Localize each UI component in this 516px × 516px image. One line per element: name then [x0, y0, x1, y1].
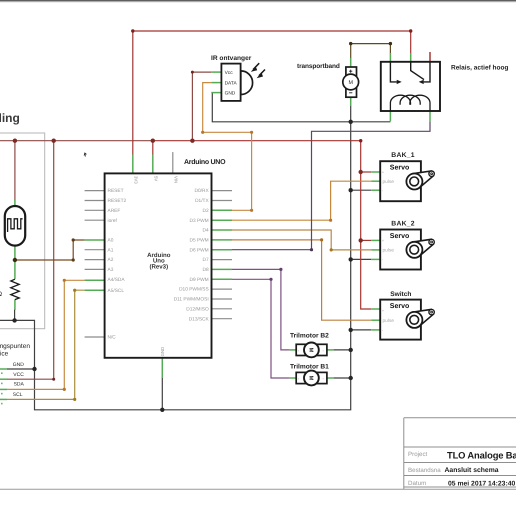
pin stubs I2C header left — [0, 369, 7, 399]
Arduino top pin labels rotated — [133, 176, 178, 184]
group frame (light) — [0, 133, 45, 329]
wire GND: relay coil left pin to bus — [351, 121, 391, 123]
svg-text:BAK_1: BAK_1 — [391, 152, 415, 159]
svg-text:D1/TX: D1/TX — [195, 198, 209, 204]
pin stubs LDR and resistor — [14, 200, 16, 311]
wire GND: main vertical bus from motor to bottom rail — [0, 106, 351, 410]
pin stubs servo Switch — [371, 309, 380, 330]
svg-text:M: M — [307, 348, 313, 353]
svg-text:AREF: AREF — [108, 208, 121, 214]
wire GND: header GND pin — [7, 368, 35, 370]
svg-text:D9 PWM: D9 PWM — [189, 277, 208, 283]
svg-text:SCL: SCL — [13, 392, 23, 398]
wire VCC dark red: left rail — [0, 140, 153, 142]
TITLE-BLOCK — [404, 418, 516, 490]
servo BAK_2 — [380, 220, 434, 269]
svg-text:D7: D7 — [203, 257, 209, 263]
svg-text:D3 PWM: D3 PWM — [189, 218, 208, 224]
svg-text:device: device — [0, 350, 9, 357]
svg-text:RESET2: RESET2 — [108, 198, 127, 204]
junction dots red — [13, 139, 363, 243]
svg-text:Trilmotor B1: Trilmotor B1 — [290, 364, 329, 371]
svg-text:D8: D8 — [203, 267, 209, 273]
svg-text:A2: A2 — [108, 257, 114, 263]
wire red: 5V pin link — [152, 141, 154, 155]
I2C header tiny pin marks — [1, 372, 3, 404]
resistor R2 — [0, 279, 19, 299]
I2C header name label — [0, 343, 30, 357]
servo Switch — [380, 291, 434, 340]
pin stubs Arduino left — [85, 191, 105, 337]
Arduino bottom GND label rotated — [160, 347, 165, 357]
relay K1 — [381, 62, 509, 111]
svg-text:D10 PWM/SS: D10 PWM/SS — [179, 287, 209, 293]
svg-text:D4: D4 — [203, 228, 209, 234]
svg-text:D11 PWM/MOSI: D11 PWM/MOSI — [174, 297, 209, 303]
Arduino right pin labels — [174, 188, 210, 322]
svg-text:VIN: VIN — [173, 176, 178, 183]
svg-text:Servo: Servo — [390, 233, 409, 240]
pin stubs motor transportband — [350, 58, 352, 106]
pin stubs relay — [390, 52, 430, 122]
svg-text:(Rev3): (Rev3) — [149, 264, 168, 271]
wire orange: D3 to BAK_1 pulse — [232, 181, 371, 220]
svg-text:N/C: N/C — [108, 335, 117, 341]
svg-text:GND: GND — [225, 91, 236, 97]
wire red: BAK_1 servo plus — [361, 171, 372, 173]
wire purple: D9 to Trilmotor B1 — [232, 279, 289, 378]
svg-text:Relais, actief hoog: Relais, actief hoog — [451, 65, 508, 72]
wire GND: Switch servo minus — [351, 329, 372, 331]
svg-text:Bestandsna: Bestandsna — [408, 467, 441, 474]
svg-text:Aansluit schema: Aansluit schema — [445, 467, 499, 474]
svg-text:A5/SCL: A5/SCL — [108, 288, 125, 294]
wire GND: resistor bottom drop — [14, 309, 16, 320]
svg-text:ling: ling — [0, 111, 20, 125]
svg-text:VCC: VCC — [13, 372, 24, 378]
pin stubs IR receiver (green) — [211, 72, 221, 93]
wire GND: Arduino GND to bottom rail — [161, 377, 163, 410]
svg-text:DATA: DATA — [225, 81, 238, 87]
svg-text:5V: 5V — [153, 176, 158, 181]
Trilmotor B2 — [290, 332, 329, 357]
servo BAK_1 — [380, 152, 434, 201]
svg-text:A4/SDA: A4/SDA — [108, 277, 126, 283]
wire GND: IR receiver GND down to bus — [212, 93, 350, 122]
pin stubs Arduino right — [212, 191, 233, 319]
svg-text:pulse: pulse — [383, 179, 395, 185]
wire dark red: IR receiver Vcc — [192, 72, 211, 141]
I2C header pin labels — [13, 362, 25, 398]
wire GND: BAK_1 servo minus — [351, 189, 372, 191]
svg-text:Datum: Datum — [408, 480, 426, 487]
svg-text:pulse: pulse — [383, 248, 395, 254]
svg-text:05 mei 2017 14:23:40: 05 mei 2017 14:23:40 — [448, 481, 515, 488]
svg-text:A0: A0 — [108, 238, 114, 244]
pin stub Arduino GND bottom — [161, 358, 163, 378]
wire GND: Trilmotor B1 right pin — [334, 377, 351, 379]
pin stubs Trilmotor B1 — [289, 377, 333, 379]
wire orange: IR DATA to D2 — [203, 83, 252, 211]
svg-text:M: M — [307, 376, 313, 381]
svg-text:Aansluitingspunten: Aansluitingspunten — [0, 343, 30, 350]
Arduino U2 — [105, 158, 226, 358]
svg-text:RESET: RESET — [108, 188, 124, 194]
wire yellow: header SCL to A5 — [7, 290, 85, 399]
IR receiver U1 — [211, 55, 265, 101]
svg-text:IR ontvanger: IR ontvanger — [211, 55, 252, 62]
svg-text:ioref: ioref — [108, 218, 118, 224]
svg-text:D5 PWM: D5 PWM — [189, 238, 208, 244]
wire orange: D4 to BAK_2 pulse — [232, 230, 371, 250]
svg-text:BAK_2: BAK_2 — [391, 220, 415, 227]
LDR R1 — [5, 206, 25, 246]
pin stubs servo BAK_2 — [371, 240, 380, 259]
svg-text:pulse: pulse — [383, 318, 395, 324]
wire red: 5V rail to servos — [153, 141, 371, 309]
Arduino left pin labels — [108, 188, 127, 340]
svg-text:GND: GND — [13, 362, 24, 368]
svg-text:D13/SCK: D13/SCK — [189, 316, 210, 322]
svg-text:Arduino UNO: Arduino UNO — [184, 158, 226, 166]
svg-text:Vcc: Vcc — [225, 70, 234, 76]
cursor artifact — [84, 152, 87, 156]
pin stubs Trilmotor B2 — [289, 349, 333, 351]
svg-text:D12/MISO: D12/MISO — [186, 306, 209, 312]
svg-text:M: M — [348, 80, 353, 86]
wire orange: header SDA to A4 — [7, 280, 85, 389]
motor M1 transportband — [297, 63, 359, 97]
junction dots black — [12, 120, 353, 412]
svg-text:Ω: Ω — [0, 291, 2, 298]
wire brown: motor plus to relay — [351, 44, 391, 58]
wire purple: D6 to relay coil — [232, 122, 430, 250]
wire brown: LDR divider to A0 — [15, 240, 85, 260]
svg-text:TLO Analoge Bas: TLO Analoge Bas — [447, 450, 516, 461]
bend dots — [52, 29, 412, 401]
svg-text:SDA: SDA — [14, 382, 25, 388]
svg-text:GND: GND — [160, 347, 165, 357]
svg-text:A1: A1 — [108, 247, 114, 253]
wire orange: D5 to Switch pulse — [232, 240, 371, 320]
pin stubs servo BAK_1 — [371, 172, 380, 190]
wire purple: D8 to Trilmotor B2 — [232, 269, 289, 350]
svg-text:Servo: Servo — [390, 165, 409, 172]
svg-text:Trilmotor B2: Trilmotor B2 — [290, 332, 329, 339]
svg-text:Switch: Switch — [390, 291, 411, 298]
svg-text:3V3: 3V3 — [133, 176, 138, 184]
wire GND: Trilmotor B2 right pin — [334, 349, 351, 351]
svg-text:D6 PWM: D6 PWM — [189, 247, 208, 253]
wire GND: BAK_2 servo minus — [351, 258, 372, 260]
Trilmotor B1 — [290, 364, 329, 386]
pin stubs Arduino top: 3V3 5V green, VIN gray — [133, 152, 173, 173]
wire dark red: LDR top drop — [14, 141, 16, 201]
wire dark red: header VCC drop — [7, 141, 54, 380]
svg-text:A3: A3 — [108, 267, 114, 273]
junction dot brown divider — [13, 258, 17, 262]
svg-text:Servo: Servo — [390, 303, 409, 310]
svg-text:D2: D2 — [203, 208, 209, 214]
wire red: BAK_2 servo plus — [361, 239, 372, 241]
svg-text:Project: Project — [408, 451, 428, 458]
svg-text:transportband: transportband — [297, 63, 340, 70]
svg-text:D0/RX: D0/RX — [195, 188, 210, 194]
node label ...ling — [0, 111, 20, 125]
wire red: 3V3 to relay top wire — [133, 31, 411, 155]
